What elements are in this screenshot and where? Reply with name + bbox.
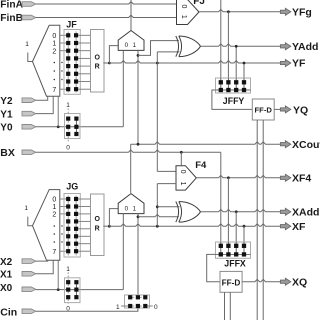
wire branch up to mux M1 input — [109, 46, 118, 63]
config block CF2 cells — [66, 280, 70, 284]
wire branch up to mux M2 input — [109, 209, 118, 227]
svg-text:FinB: FinB — [0, 13, 23, 24]
wire BX corner down to JFFX col1 — [220, 152, 222, 242]
flip-flop config block JFFX box — [216, 242, 251, 258]
ticks decoder to JF cells — [60, 34, 67, 36]
svg-text:XF: XF — [292, 221, 306, 233]
node tap W1b — [137, 215, 140, 218]
node mux M1 in1 join XCout — [137, 143, 140, 146]
node XF feeding line C4 — [243, 225, 246, 228]
svg-text:XF4: XF4 — [292, 173, 311, 185]
svg-text:1: 1 — [66, 102, 70, 109]
wire X2 select — [36, 259, 48, 262]
wire to XOR-G top input — [157, 206, 179, 208]
svg-text:0: 0 — [154, 304, 158, 311]
wire X0 line — [36, 289, 124, 291]
flip-flop FF-D X — [220, 271, 242, 292]
ticks decoder JG to cells — [60, 198, 67, 200]
svg-text:FinA: FinA — [0, 0, 23, 10]
config block CF1 dashed select — [67, 109, 69, 116]
node OR-G output branch — [108, 225, 111, 228]
wire YFg — [199, 9, 281, 11]
svg-text:1: 1 — [179, 182, 186, 186]
config block CF1 cells — [66, 117, 70, 121]
svg-text:1: 1 — [133, 205, 137, 212]
node XAdd feeding line C3 — [235, 210, 238, 213]
svg-text:2: 2 — [52, 48, 56, 55]
svg-text:Y2: Y2 — [0, 96, 13, 107]
wire XAdd line — [201, 209, 282, 211]
wire FinB to mux FJ — [36, 15, 177, 17]
wire YQ — [274, 108, 281, 110]
svg-text:O: O — [94, 216, 100, 223]
output YAdd — [280, 43, 290, 50]
node YF feeding line C4 — [243, 62, 246, 65]
node XOR-G top input tap — [156, 205, 159, 208]
svg-text:Cin: Cin — [0, 306, 17, 318]
svg-text:FF-D: FF-D — [255, 105, 273, 114]
bus line C3 — [235, 46, 237, 78]
svg-text:JG: JG — [66, 182, 78, 192]
svg-text:X1: X1 — [0, 270, 13, 281]
JF memory cells — [66, 33, 70, 37]
svg-text:FF-D: FF-D — [222, 278, 241, 287]
svg-text:XCout: XCout — [292, 139, 320, 151]
wire mux M2 input 1 down to Cin block — [137, 214, 139, 298]
wire JFFY to FF-D Y — [212, 90, 252, 109]
svg-text:1: 1 — [24, 205, 28, 212]
svg-text:YAdd: YAdd — [292, 41, 318, 53]
output XF4 — [280, 174, 290, 181]
wire X1 select — [36, 260, 53, 274]
node Y0 select junction — [57, 125, 60, 128]
wire Y2 select — [36, 96, 48, 100]
wire JFFX col4 stub — [243, 226, 245, 242]
wire OR-F output — [103, 62, 109, 64]
svg-text:Y1: Y1 — [0, 109, 13, 120]
mux M2 (0/1 select of G) — [118, 194, 144, 214]
mux F4 — [176, 166, 196, 190]
node YAdd feeding line C3 — [235, 45, 238, 48]
node XF4 feeding JFFX col2 — [227, 176, 230, 179]
svg-text:7: 7 — [52, 249, 56, 256]
svg-text:1: 1 — [180, 15, 187, 19]
node BX to F4 select — [180, 151, 183, 154]
JFFY cell column stubs — [220, 78, 222, 90]
wire JFFX to FF-D X — [207, 254, 220, 281]
JFFY memory cells — [219, 80, 223, 84]
svg-text:7: 7 — [52, 87, 56, 94]
tick ellipsis dots — [61, 62, 62, 63]
decoder trapezoid (F LUT address) — [33, 25, 60, 96]
JFFX memory cells — [219, 244, 223, 248]
wire W1b to XOR-G bottom input — [138, 214, 179, 216]
wire YF line — [109, 61, 281, 63]
flip-flop FF-D Y — [252, 99, 274, 120]
svg-text:FJ: FJ — [193, 0, 205, 7]
config block CF2 box — [65, 278, 81, 303]
OR block G — [91, 194, 105, 256]
decoder JG ellipsis dots — [54, 225, 56, 227]
svg-text:0: 0 — [125, 205, 129, 212]
ticks JF to OR — [78, 34, 90, 36]
wire Cin line — [36, 308, 138, 311]
svg-text:1: 1 — [116, 304, 120, 311]
svg-text:Y0: Y0 — [0, 123, 13, 134]
OR block F — [91, 30, 105, 93]
svg-text:YQ: YQ — [293, 104, 308, 116]
svg-text:X0: X0 — [0, 283, 13, 294]
output XCout — [280, 141, 290, 148]
config block CF3 box (carry select) — [125, 295, 150, 308]
svg-text:BX: BX — [0, 147, 15, 159]
wire mux M1 output up to top edge — [130, 0, 132, 31]
wire XF line — [109, 224, 281, 226]
wire Y1 select — [36, 96, 53, 113]
svg-text:1: 1 — [25, 41, 29, 48]
wire constant-1 into decoder — [28, 53, 33, 62]
decoder ellipsis dots — [54, 62, 56, 64]
svg-text:0: 0 — [125, 42, 129, 49]
wire W2 to XOR-F bottom input — [157, 51, 179, 53]
config block CF1 col2 link — [75, 119, 77, 134]
wire mux M1 input 1 down to XCout line — [137, 50, 139, 144]
svg-text:1: 1 — [66, 266, 70, 273]
svg-text:XAdd: XAdd — [292, 207, 319, 219]
wire BX line — [36, 150, 221, 152]
ticks JG to OR — [78, 198, 90, 200]
svg-text:R: R — [95, 64, 100, 71]
config block CF2 dashed select — [67, 272, 69, 280]
output YF — [280, 60, 290, 67]
wire JFFX col3 down — [235, 212, 237, 242]
decoder trapezoid (G LUT address) — [33, 190, 60, 261]
wire long vertical YF feedback — [156, 52, 158, 171]
wire XQ — [242, 279, 281, 281]
wire JFFX col2 down — [227, 178, 229, 242]
mux M1 (0/1 select of F) — [118, 31, 144, 51]
wire FF-D X clock lines down — [224, 292, 226, 320]
svg-text:0: 0 — [52, 33, 56, 40]
memory block JF box — [64, 30, 80, 95]
config block CF3 cells — [128, 295, 132, 299]
config block CF2 col2 link — [75, 282, 77, 297]
tick ellipsis dots JG — [61, 225, 62, 226]
svg-text:F4: F4 — [195, 160, 207, 171]
node YF to long vertical — [156, 62, 159, 65]
wire F4 select — [180, 152, 182, 165]
wire long vertical XF feedback — [156, 184, 158, 227]
svg-text:XQ: XQ — [292, 277, 307, 289]
config block CF3 dashes — [133, 296, 136, 298]
svg-text:2: 2 — [52, 212, 56, 219]
flip-flop config block JFFY box — [216, 78, 251, 93]
wire to F4 input 0 — [157, 170, 176, 172]
wire FF-D Y clock lines down — [256, 120, 258, 320]
wire OR-G output — [103, 225, 109, 227]
mux FJ — [177, 0, 200, 25]
svg-text:0: 0 — [66, 144, 70, 151]
wire XCout corner down to mux M2 apex — [130, 144, 132, 193]
wire XF4 line — [196, 175, 281, 177]
bus line C1 — [220, 0, 222, 78]
svg-text:1: 1 — [52, 41, 56, 48]
svg-text:YF: YF — [292, 58, 306, 70]
node tap W1 — [137, 54, 140, 57]
node XF to long vertical — [156, 225, 159, 228]
wire W1 to XOR-F top input — [138, 41, 179, 56]
wire constant-1 into decoder JG — [28, 217, 33, 226]
svg-text:JF: JF — [66, 19, 77, 29]
node OR-F output branch — [108, 62, 111, 65]
wire F4 input 1 elbow — [157, 183, 176, 185]
wire FinA to mux FJ — [36, 2, 177, 4]
memory block JG box — [64, 194, 80, 258]
svg-text:0: 0 — [52, 197, 56, 204]
config block CF1 box — [65, 114, 81, 139]
svg-text:0: 0 — [179, 170, 186, 174]
svg-text:1: 1 — [52, 204, 56, 211]
wire Y0/config to mux M1 input 0 — [122, 50, 124, 126]
output XF — [280, 223, 290, 230]
JFFX cell column stubs — [220, 242, 222, 254]
svg-text:O: O — [94, 54, 100, 61]
wire XCout line — [131, 142, 281, 144]
output YFg — [280, 8, 290, 15]
svg-text:JFFY: JFFY — [223, 96, 245, 106]
svg-text:YFg: YFg — [292, 7, 312, 19]
wire Y0 line — [36, 126, 124, 128]
output YQ — [280, 106, 290, 113]
node X0 select junction — [57, 288, 60, 291]
svg-text:0: 0 — [180, 4, 187, 8]
JG memory cells — [66, 197, 70, 201]
output XQ — [280, 278, 290, 285]
svg-text:X2: X2 — [0, 257, 13, 268]
wire X0/config to mux M2 input 0 — [122, 214, 124, 290]
svg-text:1: 1 — [133, 42, 137, 49]
JF cell column lines — [67, 32, 69, 93]
svg-text:R: R — [95, 225, 100, 232]
wire YAdd line — [201, 44, 282, 46]
svg-text:JFFX: JFFX — [224, 259, 246, 269]
bus line C2 — [227, 12, 229, 78]
xor gate XOR-G — [176, 202, 179, 223]
bus line C4 — [243, 63, 245, 78]
xor gate XOR-F — [176, 36, 179, 57]
output XAdd — [280, 208, 290, 215]
JG cell column lines — [67, 196, 69, 256]
node on YFg feeding line C2 — [227, 10, 230, 13]
